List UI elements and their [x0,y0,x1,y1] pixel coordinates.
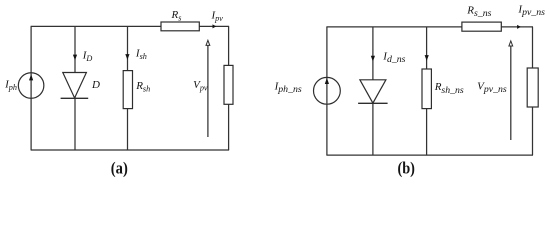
svg-text:Ish: Ish [135,47,147,61]
svg-text:(a): (a) [111,159,128,178]
svg-text:Iph_ns: Iph_ns [274,80,302,95]
svg-text:Iph: Iph [4,79,17,93]
svg-text:Rs: Rs [171,9,182,23]
svg-text:(b): (b) [397,159,415,178]
svg-text:Ipv_ns: Ipv_ns [517,3,545,18]
svg-text:D: D [91,79,100,91]
svg-text:Rsh: Rsh [135,80,150,94]
svg-text:Vpv_ns: Vpv_ns [477,80,507,95]
svg-text:Ipv: Ipv [211,9,224,23]
svg-text:ID: ID [82,49,93,63]
svg-text:Rsh_ns: Rsh_ns [434,81,464,96]
svg-text:Vpv: Vpv [193,79,208,93]
svg-text:Id_ns: Id_ns [382,50,405,65]
svg-text:Rs_ns: Rs_ns [466,4,491,19]
